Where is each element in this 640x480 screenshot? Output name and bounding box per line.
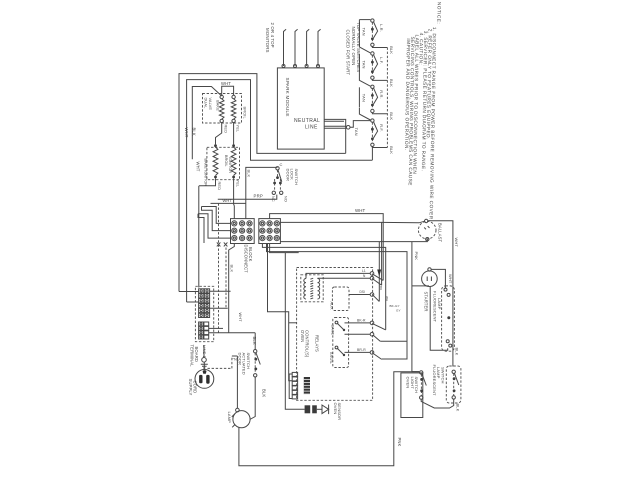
svg-text:BLK: BLK (454, 348, 459, 356)
svg-text:LAMP: LAMP (227, 412, 232, 424)
svg-text:MONITORS: MONITORS (265, 28, 270, 53)
svg-text:TAN: TAN (354, 128, 359, 136)
wire oven light blade out (421, 399, 454, 408)
wire board row out 1 (210, 290, 231, 292)
wire RF switch output (371, 147, 373, 161)
svg-text:OVEN: OVEN (300, 330, 305, 342)
wire door switch to lamp (250, 377, 255, 420)
door lock switch (276, 167, 279, 170)
svg-text:NO: NO (284, 196, 288, 202)
disconnect block left half (231, 219, 255, 244)
svg-text:L.R.: L.R. (379, 24, 384, 32)
svg-text:NEUTRAL: NEUTRAL (294, 118, 320, 124)
wire ballast top to WHT rail (428, 221, 453, 367)
wire board row out 2 (210, 307, 228, 309)
transformer dashed box (301, 275, 323, 302)
oven control black connector block (304, 377, 310, 394)
wire rail1 to board (179, 291, 199, 293)
wire supply neutral dashed (208, 367, 232, 369)
svg-text:WHT: WHT (196, 162, 201, 172)
wire rail2 to board (187, 301, 199, 303)
svg-text:WHT: WHT (448, 274, 453, 284)
wire transformer to T2 (318, 277, 371, 279)
wire broil contact to T6 (345, 351, 371, 353)
svg-text:SENSOR: SENSOR (337, 403, 342, 421)
svg-text:FLUORESCENT: FLUORESCENT (433, 291, 438, 323)
gas valve switch R.R. (359, 74, 370, 86)
fluorescent lamp switch (452, 370, 455, 373)
disconnect block right half (259, 219, 281, 244)
ballast (418, 221, 436, 239)
svg-text:PRP: PRP (254, 194, 263, 199)
wire dual-valve feed rail (192, 87, 221, 160)
svg-text:YEL: YEL (236, 180, 241, 188)
wire step 1 (202, 207, 231, 224)
svg-text:TAN: TAN (362, 94, 367, 102)
svg-text:SWITCH: SWITCH (414, 377, 419, 394)
svg-text:TAN: TAN (362, 61, 367, 69)
svg-text:BROIL: BROIL (329, 352, 333, 364)
wire starter to lamp bottom (430, 287, 448, 351)
svg-text:BK-R: BK-R (357, 319, 366, 323)
svg-text:SWITCH: SWITCH (246, 353, 251, 370)
relay aux dashed box (332, 287, 349, 311)
svg-text:LAMP: LAMP (437, 298, 442, 310)
svg-text:WHT: WHT (223, 198, 233, 203)
svg-text:WH: WH (385, 296, 389, 301)
wire step 2 (202, 207, 231, 231)
wire bake valve to ignitor (216, 123, 222, 145)
wire bus E (267, 244, 408, 360)
terminal board dashed box (195, 286, 213, 341)
svg-text:PNK: PNK (414, 252, 419, 261)
wire block crossover x1 (217, 242, 221, 246)
transformer primary coil (304, 279, 306, 300)
svg-text:DUAL: DUAL (204, 98, 209, 110)
wire starter bottom branch (412, 285, 429, 287)
wire door switch feed (254, 333, 256, 350)
wire PRP door lock (218, 195, 277, 200)
svg-text:GY: GY (396, 309, 401, 313)
wire bus A WHT (270, 214, 384, 281)
svg-text:L1: L1 (362, 269, 366, 273)
svg-text:ACTUATED: ACTUATED (242, 353, 247, 375)
svg-text:BLK: BLK (252, 337, 257, 345)
fuse line1 (202, 358, 207, 363)
svg-text:C: C (280, 162, 283, 167)
oven control dashed box (297, 268, 373, 401)
svg-text:BALLAST: BALLAST (438, 223, 443, 243)
dual valve dashed box (203, 94, 242, 124)
svg-text:WHT: WHT (355, 208, 366, 213)
svg-text:SWITCH: SWITCH (294, 169, 299, 186)
svg-text:BLK: BLK (389, 79, 394, 87)
wire WHT valve jumper (222, 86, 234, 95)
wire broil valve to ignitor (233, 123, 235, 145)
svg-text:LIGHT: LIGHT (410, 377, 415, 390)
svg-text:BK-GY: BK-GY (390, 304, 400, 308)
svg-text:CORD: CORD (192, 381, 197, 394)
svg-text:DISCONNECT: DISCONNECT (243, 245, 248, 274)
wire starter top to lamp pin (431, 269, 445, 288)
wire T5 branch (380, 340, 407, 342)
wire BLK block to door switch (229, 244, 235, 333)
svg-text:RELAYS: RELAYS (315, 335, 320, 352)
svg-text:LINE: LINE (305, 125, 318, 131)
svg-text:SUPPLY: SUPPLY (188, 379, 193, 396)
svg-text:BROIL: BROIL (224, 155, 228, 167)
wire bus C ballast bottom (280, 239, 427, 242)
wire block to left connector (268, 244, 299, 381)
svg-text:L.F.: L.F. (379, 57, 384, 64)
transformer secondary coil (318, 279, 320, 300)
gas valve switch L.R. (359, 19, 370, 21)
svg-text:YEL: YEL (236, 125, 241, 133)
svg-text:BLOCK: BLOCK (248, 247, 253, 262)
svg-text:OVEN: OVEN (405, 377, 410, 389)
svg-text:VALVE: VALVE (208, 98, 213, 111)
svg-text:BLK: BLK (389, 46, 394, 54)
wire bus B to ballast (382, 221, 425, 223)
wire ignitor return rail (198, 186, 200, 288)
svg-text:CONTROL(S): CONTROL(S) (305, 330, 310, 358)
wire dashed drop a (218, 203, 220, 332)
svg-text:BLK: BLK (261, 389, 266, 397)
ignitor dashed box (207, 147, 240, 179)
wire step to box edge (289, 322, 297, 324)
svg-text:AUX: AUX (330, 302, 334, 311)
oven control terminal arrow (377, 270, 381, 277)
gas valve switch R.F. (359, 108, 370, 120)
svg-text:BLK: BLK (389, 112, 394, 120)
wire block crossover x2 (224, 242, 228, 246)
bake valve coil (220, 95, 223, 98)
terminal board lower connector (199, 322, 204, 326)
wire neutral line TAN lead (324, 125, 346, 127)
bake ignitor element (214, 144, 217, 147)
wire step 4 (198, 214, 204, 243)
svg-text:BROIL: BROIL (242, 107, 247, 120)
svg-text:PNK: PNK (397, 438, 402, 447)
wire neutral line top lead (324, 119, 346, 153)
wire broil ignitor out (233, 178, 236, 218)
svg-text:TERMINAL: TERMINAL (189, 345, 194, 368)
svg-text:BAKE: BAKE (330, 325, 334, 336)
svg-text:SPARK MODULE: SPARK MODULE (285, 78, 290, 117)
svg-text:BLK: BLK (455, 404, 460, 412)
svg-text:CLOSED FOR START: CLOSED FOR START (346, 30, 351, 76)
wire lamp to bottom rail (239, 372, 419, 466)
wire dashed drop b (225, 248, 227, 309)
svg-text:SWITCH: SWITCH (440, 367, 445, 384)
spark module box (277, 68, 324, 149)
svg-text:R.R.: R.R. (379, 90, 384, 98)
svg-text:BR-R: BR-R (357, 348, 366, 352)
terminal board upper connector (199, 289, 204, 293)
wire bake ignitor out (199, 178, 216, 185)
spark module monitor pins (284, 29, 287, 66)
svg-text:WHT: WHT (184, 128, 189, 138)
svg-text:BOARD: BOARD (194, 347, 199, 363)
wire board lower out a (209, 327, 223, 329)
wire bake contact to T4 (345, 322, 371, 324)
svg-text:BLK: BLK (246, 170, 251, 178)
svg-text:WHT: WHT (238, 313, 243, 323)
wire bus B (280, 222, 381, 285)
wire bus C to terminal 3 (378, 242, 380, 302)
starter (422, 271, 438, 287)
oven control edge terminals (370, 272, 374, 276)
supply cord plug (195, 370, 214, 389)
svg-text:BLK: BLK (389, 146, 394, 154)
wire PNK drop (412, 242, 419, 372)
wire lamp neutral (236, 356, 238, 408)
wire board lower out b (209, 332, 256, 334)
door actuated switch (254, 350, 257, 353)
svg-text:RED: RED (217, 182, 222, 191)
svg-text:BK: BK (379, 286, 383, 290)
supply cord ground symbol (201, 362, 208, 369)
wire WHT neutral outer rail (179, 74, 346, 292)
wire bus D (262, 244, 385, 330)
gas valve switch L.F. (359, 41, 370, 53)
relay contacts dashed box (333, 318, 349, 368)
broil valve coil (232, 95, 235, 98)
svg-text:STARTER: STARTER (424, 292, 429, 312)
wire transformer to T1 (306, 273, 370, 278)
svg-text:DSI: DSI (360, 290, 366, 294)
svg-text:DOOR: DOOR (237, 353, 242, 365)
svg-text:OVEN: OVEN (333, 403, 338, 415)
wire BLK dashed rail valves (386, 48, 388, 148)
wire sensor feed (285, 253, 304, 410)
oven sensor connector (305, 405, 311, 413)
wire door lock feed BLK (246, 167, 278, 219)
transformer core (310, 278, 313, 279)
svg-text:WHT: WHT (454, 238, 459, 248)
svg-text:BLK: BLK (230, 265, 235, 273)
wire step 3 (198, 214, 231, 238)
wire relay aux to T3 (349, 294, 370, 296)
svg-text:BAKE IGNITOR: BAKE IGNITOR (203, 159, 207, 187)
oven lamp (233, 411, 250, 428)
svg-text:BAKE: BAKE (216, 100, 221, 111)
wire WHT to block (211, 202, 246, 204)
svg-text:R.F.: R.F. (379, 124, 384, 132)
svg-text:TAN: TAN (362, 28, 367, 36)
broil relay contact (337, 348, 345, 356)
fluorescent lamp tube (442, 286, 455, 351)
oven light switch (420, 371, 423, 374)
svg-text:RED: RED (223, 125, 228, 134)
oven control left connector (292, 372, 297, 376)
wire relay mid to T5 (345, 333, 371, 335)
wire BLK second rail (187, 80, 373, 302)
broil ignitor element (232, 144, 235, 147)
bake relay contact (337, 323, 345, 331)
svg-text:WHT: WHT (221, 81, 231, 86)
oven light switch box (401, 373, 423, 418)
